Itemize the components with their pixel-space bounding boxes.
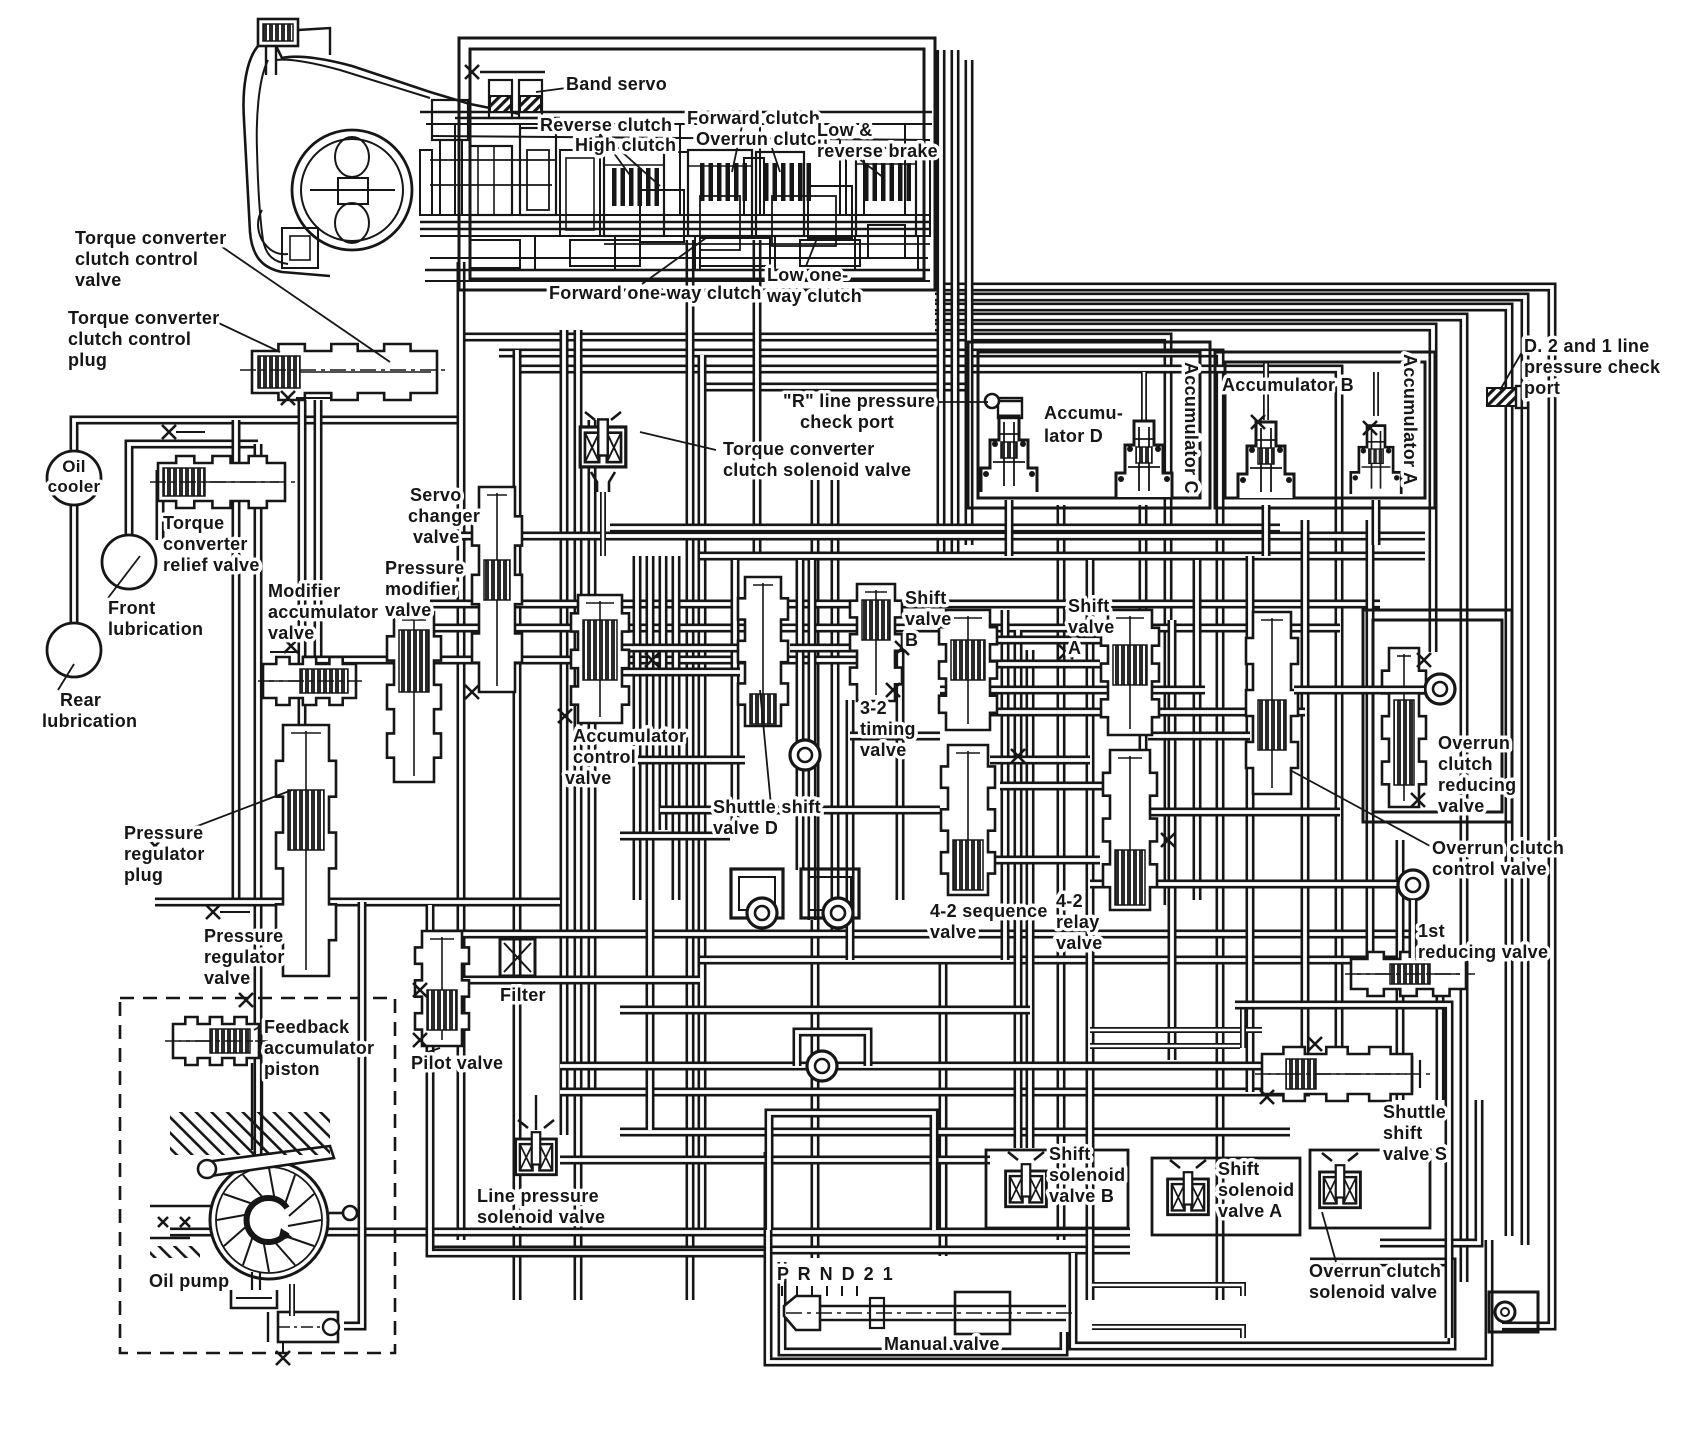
svg-text:Pressure: Pressure — [385, 558, 464, 578]
svg-text:Rear: Rear — [60, 690, 101, 710]
svg-text:clutch control: clutch control — [68, 329, 191, 349]
svg-text:changer: changer — [408, 506, 480, 526]
svg-text:valve: valve — [204, 968, 251, 988]
svg-text:Overrun: Overrun — [1438, 733, 1510, 753]
svg-text:check port: check port — [800, 412, 894, 432]
svg-text:Forward one-way clutch: Forward one-way clutch — [549, 283, 762, 303]
svg-text:A: A — [1068, 638, 1081, 658]
svg-text:B: B — [905, 630, 918, 650]
svg-text:control: control — [573, 747, 636, 767]
svg-text:Oil pump: Oil pump — [149, 1271, 229, 1291]
svg-text:Overrun clutch: Overrun clutch — [1309, 1261, 1441, 1281]
svg-text:Forward clutch: Forward clutch — [687, 108, 820, 128]
svg-text:High clutch: High clutch — [575, 135, 676, 155]
svg-text:shift: shift — [1383, 1123, 1423, 1143]
svg-text:Overrun clutch: Overrun clutch — [1432, 838, 1564, 858]
svg-text:valve D: valve D — [713, 818, 778, 838]
svg-text:4-2: 4-2 — [1056, 891, 1083, 911]
svg-text:valve: valve — [413, 527, 460, 547]
svg-text:valve: valve — [905, 609, 952, 629]
svg-text:solenoid valve: solenoid valve — [477, 1207, 605, 1227]
svg-text:Line pressure: Line pressure — [477, 1186, 599, 1206]
svg-text:Shift: Shift — [905, 588, 947, 608]
svg-text:timing: timing — [860, 719, 916, 739]
svg-text:clutch solenoid valve: clutch solenoid valve — [723, 460, 911, 480]
svg-text:Overrun clutch: Overrun clutch — [696, 129, 828, 149]
svg-text:clutch control: clutch control — [75, 249, 198, 269]
svg-text:Torque: Torque — [163, 513, 224, 533]
svg-text:piston: piston — [264, 1059, 320, 1079]
svg-text:regulator: regulator — [124, 844, 205, 864]
svg-text:valve: valve — [1056, 933, 1103, 953]
svg-text:4-2 sequence: 4-2 sequence — [930, 901, 1048, 921]
svg-text:valve: valve — [860, 740, 907, 760]
svg-text:Accumulator: Accumulator — [573, 726, 686, 746]
svg-text:Accumulator A: Accumulator A — [1400, 354, 1420, 485]
svg-text:Manual valve: Manual valve — [884, 1334, 1000, 1354]
svg-text:accumulator: accumulator — [264, 1038, 374, 1058]
svg-text:Shift: Shift — [1049, 1144, 1091, 1164]
svg-text:plug: plug — [68, 350, 107, 370]
svg-text:relief valve: relief valve — [163, 555, 260, 575]
svg-text:control valve: control valve — [1432, 859, 1547, 879]
svg-text:reducing valve: reducing valve — [1418, 942, 1548, 962]
svg-text:valve: valve — [385, 600, 432, 620]
svg-text:Torque converter: Torque converter — [75, 228, 227, 248]
svg-text:Oil: Oil — [62, 457, 86, 476]
svg-text:Servo: Servo — [410, 485, 462, 505]
svg-text:Accumulator B: Accumulator B — [1222, 375, 1354, 395]
svg-text:Accumu-: Accumu- — [1044, 403, 1123, 423]
svg-text:valve: valve — [1068, 617, 1115, 637]
svg-text:solenoid valve: solenoid valve — [1309, 1282, 1437, 1302]
svg-text:valve: valve — [75, 270, 122, 290]
svg-text:reverse brake: reverse brake — [817, 141, 938, 161]
svg-text:valve B: valve B — [1049, 1186, 1114, 1206]
svg-text:lubrication: lubrication — [108, 619, 203, 639]
svg-text:Torque converter: Torque converter — [68, 308, 220, 328]
svg-text:reducing: reducing — [1438, 775, 1516, 795]
svg-text:regulator: regulator — [204, 947, 285, 967]
svg-text:Reverse clutch: Reverse clutch — [540, 115, 672, 135]
svg-text:clutch: clutch — [1438, 754, 1493, 774]
svg-text:lator D: lator D — [1044, 426, 1103, 446]
svg-text:port: port — [1524, 378, 1560, 398]
svg-text:D. 2 and 1 line: D. 2 and 1 line — [1524, 336, 1650, 356]
svg-text:relay: relay — [1056, 912, 1100, 932]
svg-text:modifier: modifier — [385, 579, 458, 599]
svg-text:Shuttle shift: Shuttle shift — [713, 797, 821, 817]
svg-text:accumulator: accumulator — [268, 602, 378, 622]
svg-text:Modifier: Modifier — [268, 581, 340, 601]
svg-text:1st: 1st — [1418, 921, 1445, 941]
svg-text:valve S: valve S — [1383, 1144, 1447, 1164]
svg-text:plug: plug — [124, 865, 163, 885]
svg-text:Shift: Shift — [1218, 1159, 1260, 1179]
svg-text:Filter: Filter — [500, 985, 546, 1005]
svg-text:valve: valve — [565, 768, 612, 788]
svg-text:Band servo: Band servo — [566, 74, 667, 94]
svg-text:solenoid: solenoid — [1218, 1180, 1294, 1200]
svg-text:Front: Front — [108, 598, 155, 618]
svg-text:solenoid: solenoid — [1049, 1165, 1125, 1185]
svg-text:valve: valve — [1438, 796, 1485, 816]
svg-text:lubrication: lubrication — [42, 711, 137, 731]
svg-text:Low one-: Low one- — [767, 265, 848, 285]
svg-text:valve: valve — [930, 922, 977, 942]
svg-text:"R" line pressure: "R" line pressure — [783, 391, 935, 411]
svg-text:Pilot valve: Pilot valve — [411, 1053, 503, 1073]
svg-text:Shuttle: Shuttle — [1383, 1102, 1446, 1122]
svg-text:Shift: Shift — [1068, 596, 1110, 616]
svg-text:3-2: 3-2 — [860, 698, 887, 718]
svg-text:pressure check: pressure check — [1524, 357, 1661, 377]
svg-text:valve: valve — [268, 623, 315, 643]
svg-text:valve A: valve A — [1218, 1201, 1282, 1221]
svg-text:Pressure: Pressure — [124, 823, 203, 843]
svg-text:Torque converter: Torque converter — [723, 439, 875, 459]
svg-text:P R N D 2 1: P R N D 2 1 — [777, 1264, 895, 1284]
svg-text:Low &: Low & — [817, 120, 873, 140]
svg-text:Accumulator C: Accumulator C — [1181, 362, 1201, 494]
svg-text:Pressure: Pressure — [204, 926, 283, 946]
svg-text:converter: converter — [163, 534, 248, 554]
svg-text:Feedback: Feedback — [264, 1017, 350, 1037]
svg-text:way clutch: way clutch — [766, 286, 862, 306]
svg-text:cooler: cooler — [48, 477, 101, 496]
